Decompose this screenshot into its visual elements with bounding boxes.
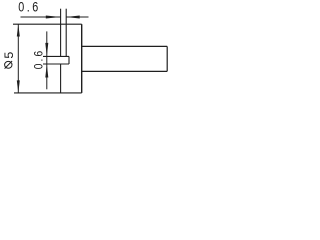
- dim text 0.6 vertical (rotated): [33, 49, 46, 70]
- shaft bottom edge: [82, 70, 168, 72]
- ø5 bottom arrow (points down, tip 18,92.7): [17, 80, 20, 93]
- 0.6 vertical dimension line: [46, 31, 48, 89]
- arrowheads: [17, 16, 80, 93]
- dim text ø5 left (rotated): diameter symbol drawn as circle+slash: [2, 52, 16, 69]
- top dim right arrow (points left, tip at 66,17): [66, 16, 80, 19]
- inner face line 0.6 from left: [65, 9, 67, 57]
- shaft top edge: [82, 45, 168, 47]
- background: [0, 0, 172, 100]
- pin top edge A with extension: [43, 55, 69, 57]
- svg-text:0.6: 0.6: [18, 0, 41, 15]
- body top edge with left extension line: [13, 23, 82, 25]
- body right edge: [81, 24, 83, 93]
- 0.6v upper arrow (points down, tip 46.8,56.4): [45, 43, 48, 57]
- ø5 dimension line: [17, 24, 19, 93]
- pin bottom edge B with extension: [43, 63, 69, 65]
- ø symbol slash: [5, 61, 13, 69]
- body bottom edge with left extension line: [14, 92, 82, 94]
- ø symbol circle: [5, 61, 12, 68]
- dim text 0.6 top: [18, 0, 41, 15]
- top dim left arrow (points right, tip at 60.5,17): [46, 16, 61, 19]
- body left edge upper part: [60, 9, 62, 57]
- 0.6v lower arrow (points up, tip 46.8,63.9): [45, 64, 48, 78]
- shaft right end edge: [166, 46, 168, 71]
- pin cross-section (0.6 square pin): [43, 56, 69, 64]
- body disc outline (side view, ø5): [13, 9, 82, 93]
- body left edge lower part: [60, 64, 62, 93]
- svg-text:0.6: 0.6: [33, 49, 46, 70]
- ø5 top arrow (points up, tip 18,24.4): [17, 24, 20, 36]
- pin right edge: [68, 56, 70, 64]
- svg-text:5: 5: [2, 52, 16, 59]
- top dim line right segment: [66, 16, 89, 18]
- top dim line left segment: [21, 16, 61, 18]
- lead shaft: [82, 46, 168, 71]
- top dimension 0.6: [21, 16, 89, 18]
